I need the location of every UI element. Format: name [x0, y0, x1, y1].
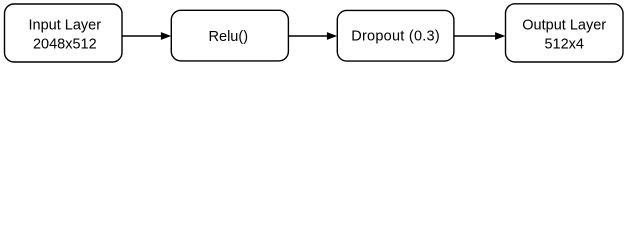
svg-text:Dropout (0.3): Dropout (0.3) [351, 29, 440, 45]
svg-text:Output Layer: Output Layer [522, 18, 606, 34]
svg-text:Relu(): Relu() [209, 29, 248, 45]
svg-text:Input Layer: Input Layer [29, 18, 102, 34]
svg-text:512x4: 512x4 [544, 37, 584, 53]
svg-text:2048x512: 2048x512 [33, 37, 97, 53]
